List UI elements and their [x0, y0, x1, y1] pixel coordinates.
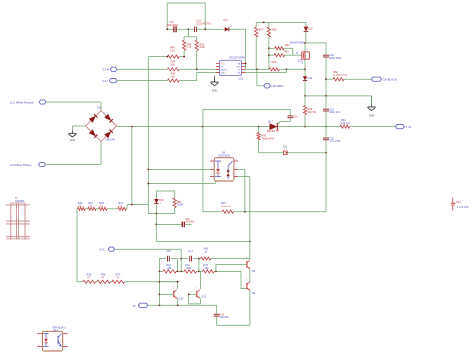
svg-text:3: 3 — [272, 120, 273, 122]
svg-text:GND: GND — [212, 89, 218, 92]
wire neutral to bridge — [46, 102, 101, 111]
svg-text:Q11: Q11 — [202, 296, 207, 299]
svg-text:R07: R07 — [259, 28, 264, 32]
wire Q10 base — [159, 293, 173, 295]
wire rail x156.3 — [155, 214, 157, 242]
svg-text:2: 2 — [230, 26, 231, 28]
port LC1 White Neutral — [10, 100, 46, 105]
svg-text:1: 1 — [173, 287, 174, 289]
wire chain1 corner — [126, 205, 128, 209]
svg-text:1: 1 — [246, 257, 247, 259]
wire U9 pin2 west — [148, 168, 210, 170]
svg-text:DB107H: DB107H — [106, 139, 116, 142]
svg-text:Q13: Q13 — [298, 59, 303, 63]
svg-text:MOC3043: MOC3043 — [219, 154, 231, 157]
wire Q9 emitter down — [249, 291, 251, 326]
junction R50-row — [196, 68, 198, 70]
capacitor C20 4.7u lower — [323, 127, 341, 153]
junction R60-U9 — [244, 211, 246, 213]
wire row CS y=69.3 — [246, 67, 257, 70]
resistor R46 2.2k — [167, 46, 179, 59]
resistor R48 1.7k — [183, 37, 193, 57]
wire Q11 collector — [199, 271, 201, 289]
svg-text:3.3-L: 3.3-L — [99, 248, 105, 252]
ground bridge — [68, 130, 76, 141]
junction drain — [304, 42, 306, 44]
junction row271 dots — [159, 271, 217, 273]
svg-text:20k: 20k — [78, 206, 81, 208]
wire snubber bottom row — [259, 152, 326, 154]
svg-text:C17: C17 — [188, 250, 193, 253]
resistor R60 2Ohm — [221, 202, 234, 213]
resistor R59 — [257, 60, 305, 71]
wire bottom return — [217, 324, 250, 326]
svg-text:10u/16v: 10u/16v — [220, 315, 230, 319]
svg-text:0.1Ohm 7%: 0.1Ohm 7% — [333, 73, 347, 77]
wire U9 east pins — [238, 169, 250, 241]
junction R08-R61 — [268, 47, 270, 56]
svg-text:20k: 20k — [89, 206, 92, 208]
svg-text:20k: 20k — [116, 277, 119, 279]
wire Q11 base — [189, 293, 197, 295]
wire link y204.6 — [127, 204, 148, 206]
wire branch y281.8 — [159, 281, 177, 283]
wire divider chain row1 — [77, 208, 127, 210]
wire riser to R48/R50 — [184, 29, 197, 37]
wire Q11 feedback loop — [189, 294, 201, 304]
svg-text:10k: 10k — [204, 266, 209, 270]
svg-text:1: 1 — [222, 26, 223, 28]
capacitor C10 220u/400v — [167, 21, 179, 32]
transistor Q9 — [246, 279, 255, 295]
wire cap loop1 — [159, 259, 177, 272]
wire Q8 collector — [249, 241, 251, 260]
port CH BLACK — [371, 77, 397, 81]
bridge rectifier D9 DB107H — [84, 107, 117, 142]
svg-text:R32: R32 — [88, 201, 93, 205]
svg-text:R62: R62 — [284, 51, 289, 54]
svg-text:LCO Blue Phase: LCO Blue Phase — [10, 163, 32, 167]
svg-text:LC1 White Neutral: LC1 White Neutral — [10, 101, 34, 105]
junction VB — [245, 63, 247, 65]
capacitor C17 — [188, 250, 193, 261]
svg-text:2: 2 — [308, 31, 309, 33]
wire divider chain row2 — [77, 281, 178, 283]
wire drain rail — [304, 43, 306, 52]
capacitor C13 10u — [214, 305, 230, 325]
svg-text:2: 2 — [211, 167, 212, 169]
resistor R49 75ohm — [257, 127, 274, 153]
svg-text:1: 1 — [38, 332, 39, 334]
svg-text:C24: C24 — [456, 201, 461, 204]
svg-text:G: G — [296, 52, 298, 55]
wire Q10 emitter — [176, 298, 179, 305]
wire phase to bridge — [46, 141, 102, 164]
junction D12-row — [304, 95, 306, 97]
wire row IN y=69.3 — [117, 68, 219, 70]
svg-text:0.22uF/275v: 0.22uF/275v — [197, 21, 212, 25]
wire row to GND y=95.9 — [305, 95, 372, 97]
resistor R37 20k — [112, 273, 125, 284]
resistor R07 — [255, 22, 265, 69]
wire cap branch x181.2 — [180, 249, 182, 271]
svg-text:R36: R36 — [101, 273, 106, 277]
svg-text:PS2127-02PNP: PS2127-02PNP — [229, 57, 246, 60]
junction row1-row2 — [286, 68, 288, 70]
svg-text:2: 2 — [38, 344, 39, 346]
junction x181.2 captop — [180, 258, 182, 260]
svg-text:J10: J10 — [283, 145, 288, 148]
wire rail x77 — [76, 209, 78, 282]
svg-text:C20: C20 — [293, 116, 298, 119]
junction 5v dots — [159, 304, 179, 306]
junction left rail dots — [159, 281, 161, 295]
svg-text:1: 1 — [271, 25, 272, 27]
resistor R36 20k — [97, 273, 111, 284]
wire row GN y=72.5 — [246, 69, 287, 72]
svg-text:Q10: Q10 — [179, 298, 184, 301]
svg-text:100u 400v: 100u 400v — [329, 56, 342, 60]
svg-text:20k: 20k — [87, 277, 90, 279]
junction bus x258.6 — [258, 126, 260, 128]
svg-text:FAULT#: FAULT# — [221, 69, 229, 72]
port LCO Blue Phase — [10, 162, 46, 167]
svg-text:U11: U11 — [53, 328, 58, 332]
transformer T1 — [6, 197, 30, 240]
svg-text:4: 4 — [65, 332, 66, 334]
junction C19-bus — [304, 126, 327, 128]
diode D16 — [304, 22, 313, 43]
svg-text:220u/400v: 220u/400v — [167, 24, 179, 27]
port 3.3-L — [102, 79, 117, 84]
svg-text:1: 1 — [84, 123, 85, 125]
resistor R42 10k — [163, 264, 177, 273]
wire left rail x159.4 — [158, 271, 160, 305]
resistor R41 1k — [199, 248, 250, 261]
svg-text:1: 1 — [211, 159, 212, 161]
wire top snubber loop — [167, 3, 205, 29]
wire port row y249.2 — [115, 248, 182, 250]
svg-text:3.3-M: 3.3-M — [102, 68, 110, 72]
wire step to Q8 base — [216, 264, 247, 271]
wire long feed y241.4 — [156, 240, 250, 242]
svg-text:5 V1: 5 V1 — [406, 125, 412, 129]
svg-text:R34: R34 — [118, 201, 123, 205]
svg-text:5V: 5V — [133, 305, 136, 308]
svg-text:CH BLACK: CH BLACK — [383, 77, 398, 81]
wire R60 row — [203, 211, 326, 213]
svg-text:1.7k: 1.7k — [187, 46, 192, 49]
resistor R35 20k — [83, 273, 96, 284]
resistor R33 20k — [99, 201, 107, 210]
transistor Q10 — [173, 287, 184, 301]
wire gate link — [278, 122, 291, 124]
svg-text:T: T — [284, 149, 285, 151]
junction bus x131.9 — [131, 126, 133, 128]
wire main HV bus y=29 — [167, 28, 246, 30]
svg-text:R61: R61 — [285, 44, 290, 47]
resistor R32 20k — [88, 201, 96, 210]
svg-text:4.7u 275v: 4.7u 275v — [329, 139, 341, 143]
junction bus x202.6 — [202, 126, 204, 128]
svg-text:100k: 100k — [185, 266, 191, 270]
svg-text:BA63N.TP: BA63N.TP — [267, 129, 280, 133]
svg-text:75ohm/5%: 75ohm/5% — [261, 136, 274, 140]
capacitor C19 100u — [323, 96, 341, 127]
capacitor C20 gate — [288, 110, 299, 122]
jumper J10 — [283, 145, 288, 154]
wire rail x326 lower — [325, 153, 327, 212]
junction C18-row — [325, 95, 327, 97]
wire rail x148.3 — [147, 57, 149, 214]
junction loop2-R41 — [198, 258, 200, 260]
svg-text:D16: D16 — [308, 26, 313, 30]
svg-text:R60: R60 — [221, 202, 226, 205]
transistor Q13 IRGAPC40K — [290, 40, 310, 64]
wire rail link y213.6 — [148, 213, 156, 215]
resistor R62 gate — [269, 51, 293, 57]
port 3.3-M — [102, 67, 117, 71]
wire source rail — [304, 59, 306, 69]
port 5 V1 — [395, 125, 412, 130]
junction source — [304, 68, 306, 70]
svg-text:3.3-L: 3.3-L — [102, 79, 109, 83]
resistor R08 — [267, 22, 277, 69]
optocoupler U11 SFH-615A — [37, 327, 68, 351]
transistor Q8 — [246, 257, 255, 273]
svg-text:2Ohm 1%: 2Ohm 1% — [221, 206, 231, 208]
junction top tie — [263, 22, 265, 24]
wire LED port riser — [257, 69, 264, 86]
wire VB rail x=245.6 — [245, 29, 247, 66]
thyristor Q6 — [267, 120, 280, 132]
wire drain to C18 rail — [305, 42, 326, 44]
svg-text:3: 3 — [65, 344, 66, 346]
resistor R34 20k — [118, 201, 126, 210]
junction Q10 col — [177, 281, 179, 283]
svg-text:47u/50v: 47u/50v — [185, 220, 195, 224]
resistor R61 — [269, 44, 293, 50]
svg-text:ILIM: ILIM — [221, 73, 225, 75]
diode D11 — [222, 19, 231, 31]
transistor Q11 — [196, 287, 207, 299]
wire Q10 collector — [177, 282, 179, 289]
svg-text:D11: D11 — [224, 19, 229, 22]
capacitor C16 47u/50v — [156, 218, 195, 227]
svg-text:3: 3 — [211, 175, 212, 177]
svg-text:R31: R31 — [78, 201, 83, 205]
svg-text:R59: R59 — [272, 60, 277, 64]
junction U9-rail2 — [147, 183, 149, 185]
port 5V — [133, 303, 148, 308]
junction bus-loop-right — [204, 28, 206, 30]
svg-text:LED RED1: LED RED1 — [271, 85, 284, 88]
svg-text:IRGAPC40K: IRGAPC40K — [290, 40, 305, 44]
wire Q8-Q9 — [249, 269, 251, 282]
junction C16 tap — [155, 224, 157, 226]
svg-text:1: 1 — [246, 279, 247, 281]
svg-text:4: 4 — [236, 167, 237, 169]
wire 5V row — [148, 304, 217, 306]
wire D15 loop top — [156, 191, 174, 199]
svg-text:6: 6 — [236, 159, 237, 161]
svg-text:20k: 20k — [100, 206, 103, 208]
diode D15 zener — [154, 199, 164, 214]
svg-text:C15: C15 — [166, 250, 171, 253]
capacitor C18 100u/400v — [323, 43, 342, 96]
svg-text:2.2k: 2.2k — [170, 50, 175, 53]
svg-text:2: 2 — [116, 123, 117, 125]
wire gate branch upper — [203, 110, 290, 212]
wire top tie y=22.4 — [256, 21, 306, 23]
port LED RED1 — [264, 84, 284, 88]
junction C18-R62b — [325, 78, 327, 80]
svg-text:D12: D12 — [308, 76, 313, 80]
wire rail x131.9 — [131, 127, 133, 205]
svg-text:100k: 100k — [199, 46, 205, 49]
wire cap loop2 — [181, 259, 199, 272]
svg-text:10k 1%: 10k 1% — [341, 121, 350, 125]
wire row ILIM y=80.6 — [117, 73, 219, 81]
resistor R58 — [303, 96, 316, 127]
port 3.3-C — [99, 247, 115, 252]
resistor R44b 100k — [184, 264, 197, 273]
svg-text:1: 1 — [196, 287, 197, 289]
svg-text:R35: R35 — [87, 273, 92, 277]
resistor R44 10k — [167, 60, 179, 71]
resistor R43 10k — [202, 264, 214, 273]
junction Q11 base — [188, 294, 190, 296]
resistor R31 20k — [78, 201, 85, 210]
svg-text:510R: 510R — [177, 203, 183, 207]
resistor R45 10k — [167, 72, 179, 83]
svg-text:GND: GND — [369, 115, 375, 118]
capacitor C11 0.22u/275v — [195, 20, 212, 32]
junction U9-rail — [147, 169, 149, 171]
wire gate tie — [293, 48, 302, 55]
wire R46 row — [148, 56, 184, 58]
wire U9 bottom west — [148, 181, 215, 184]
resistor R52 10k — [340, 119, 395, 128]
svg-text:10k: 10k — [167, 266, 172, 270]
junction feed-collector — [249, 241, 251, 243]
ground right — [368, 96, 376, 118]
resistor R62 0.1Ohm — [326, 71, 371, 81]
svg-text:100u 10v: 100u 10v — [329, 110, 340, 114]
svg-text:CSE187L: CSE187L — [15, 201, 26, 203]
svg-text:5: 5 — [236, 175, 237, 177]
svg-text:1: 1 — [258, 25, 259, 27]
wire HVDC bus — [117, 126, 341, 128]
capacitor C24 4.7uF — [451, 198, 469, 211]
svg-text:GND: GND — [70, 139, 76, 142]
svg-text:VCC: VCC — [221, 64, 226, 66]
svg-text:D15: D15 — [159, 199, 164, 202]
svg-text:R37: R37 — [116, 273, 121, 277]
junction CS-LED — [256, 68, 258, 70]
junction bus-mid — [187, 28, 189, 30]
svg-text:20k: 20k — [101, 277, 104, 279]
junction node213 — [155, 213, 157, 215]
svg-text:4.7uF 10V: 4.7uF 10V — [457, 205, 469, 209]
junction bus-left — [166, 28, 168, 30]
svg-text:50k 5%: 50k 5% — [308, 110, 317, 114]
svg-text:R33: R33 — [99, 201, 104, 205]
svg-text:20k: 20k — [119, 206, 122, 208]
svg-text:R08: R08 — [272, 28, 277, 32]
resistor R50 100k — [195, 37, 205, 70]
ground IC U10 — [211, 76, 219, 93]
svg-text:U10: U10 — [239, 77, 244, 81]
junction C20-bottomrow — [325, 152, 327, 154]
junction rail x131.9 bottom — [131, 204, 133, 206]
junction R46-R48 — [167, 56, 186, 58]
opto-triac U9 MOC3043 — [210, 152, 238, 181]
op-amp U10 PS2127-02PNP — [216, 57, 246, 81]
capacitor C15 — [166, 250, 171, 261]
wire bridge left to GND — [72, 126, 85, 130]
wire Q9 base drop — [241, 271, 246, 288]
wire base row y271.4 — [159, 270, 241, 272]
resistor R51 — [156, 198, 183, 214]
diode D12 — [303, 69, 313, 96]
